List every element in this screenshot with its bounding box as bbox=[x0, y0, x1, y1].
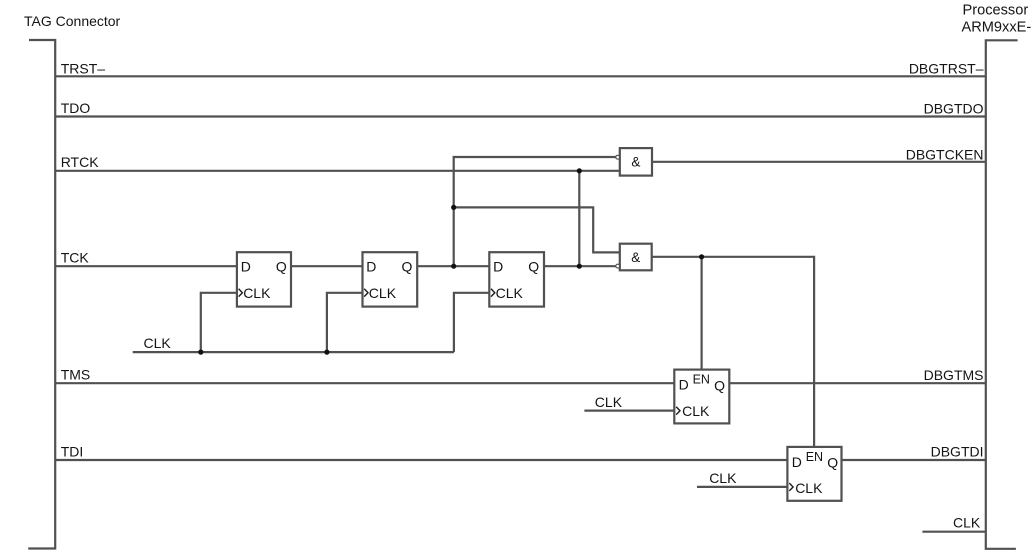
svg-text:Q: Q bbox=[714, 378, 725, 394]
svg-text:CLK: CLK bbox=[709, 470, 737, 486]
svg-text:TAG Connector: TAG Connector bbox=[24, 13, 121, 29]
wire RTCK to AND gate U4 input bbox=[55, 170, 620, 172]
wire TMS to register U6 D input bbox=[55, 382, 674, 384]
svg-text:CLK: CLK bbox=[369, 285, 397, 301]
svg-text:D: D bbox=[493, 259, 503, 275]
clock chevron U6 bbox=[676, 407, 680, 415]
svg-text:CLK: CLK bbox=[795, 480, 823, 496]
clock chevron U7 bbox=[789, 483, 793, 491]
wire CLK riser to U1 bbox=[201, 293, 237, 352]
svg-text:TDO: TDO bbox=[61, 100, 91, 116]
wire U3 Q to AND gate U5 bubble input bbox=[544, 265, 616, 267]
svg-text:CLK: CLK bbox=[243, 285, 271, 301]
AND gate U4 box bbox=[620, 148, 652, 176]
svg-text:Q: Q bbox=[402, 259, 413, 275]
wire CLK riser to U3 bbox=[454, 293, 489, 352]
flip-flop U2 box bbox=[363, 252, 418, 306]
clock chevron U2 bbox=[364, 289, 368, 297]
JTAG connector bracket bbox=[28, 40, 55, 549]
wire EN input of U6 bbox=[700, 257, 702, 370]
wire U2 Q branch up to AND gate U4 bubble input bbox=[454, 157, 616, 266]
wire CLK net bottom left bbox=[133, 351, 454, 353]
wire CLK stub to U7 bbox=[697, 486, 787, 488]
bubble on U4 input bbox=[616, 155, 620, 159]
bubble on U5 input bbox=[616, 264, 620, 268]
svg-text:TMS: TMS bbox=[61, 367, 91, 383]
wire CLK stub to U6 bbox=[584, 410, 674, 412]
svg-text:DBGTRST–: DBGTRST– bbox=[909, 60, 984, 76]
wire U7 Q to DBGTDI bbox=[842, 459, 986, 461]
svg-text:Q: Q bbox=[276, 259, 287, 275]
clock chevron U1 bbox=[239, 289, 243, 297]
wire U1 Q to U2 D bbox=[291, 265, 363, 267]
svg-text:DBGTDO: DBGTDO bbox=[924, 101, 984, 117]
wire TDI to register U7 D input bbox=[55, 459, 787, 461]
svg-text:DBGTDI: DBGTDI bbox=[931, 444, 984, 460]
node dot RTCK junction bbox=[577, 168, 582, 173]
svg-text:TCK: TCK bbox=[61, 250, 90, 266]
node dot U3Q junction bbox=[577, 264, 582, 269]
wire CLK stub bottom right bbox=[922, 531, 985, 533]
svg-text:TDI: TDI bbox=[61, 444, 84, 460]
svg-text:CLK: CLK bbox=[682, 403, 710, 419]
register U7 box (TDI enable flip-flop) bbox=[787, 447, 841, 501]
wire AND U4 output to DBGTCKEN bbox=[652, 161, 986, 163]
wire U6 Q to DBGTMS bbox=[729, 382, 986, 384]
svg-text:EN: EN bbox=[806, 450, 823, 464]
svg-text:EN: EN bbox=[693, 373, 710, 387]
node dot U2Q/U3D junction bbox=[451, 264, 456, 269]
wire node B vertical RTCK to U3 Q line bbox=[578, 171, 580, 266]
node dot branch junction bbox=[451, 205, 456, 210]
svg-text:Q: Q bbox=[827, 455, 838, 471]
wire U2 Q to U3 D bbox=[417, 265, 489, 267]
node dot U5 output junction bbox=[699, 254, 704, 259]
clock chevron U3 bbox=[491, 289, 495, 297]
AND gate U5 box bbox=[620, 244, 652, 271]
svg-text:D: D bbox=[366, 259, 376, 275]
svg-text:D: D bbox=[679, 377, 689, 393]
svg-text:DBGTMS: DBGTMS bbox=[924, 367, 984, 383]
processor bracket ARM9xxE-S bbox=[986, 40, 1018, 549]
wire AND U5 output to EN inputs bbox=[652, 257, 814, 447]
svg-text:CLK: CLK bbox=[496, 285, 524, 301]
svg-text:RTCK: RTCK bbox=[61, 154, 100, 170]
wire TCK to flip-flop U1 D input bbox=[55, 265, 237, 267]
flip-flop U1 box bbox=[237, 252, 291, 306]
svg-text:D: D bbox=[792, 454, 802, 470]
svg-text:&: & bbox=[631, 250, 640, 265]
wire CLK riser to U2 bbox=[327, 293, 363, 352]
svg-text:ARM9xxE-S: ARM9xxE-S bbox=[962, 19, 1031, 35]
svg-text:CLK: CLK bbox=[953, 515, 981, 531]
svg-text:D: D bbox=[241, 259, 251, 275]
svg-text:DBGTCKEN: DBGTCKEN bbox=[906, 147, 984, 163]
svg-text:Processor: Processor bbox=[963, 2, 1029, 18]
node dot CLK riser U1 bbox=[198, 350, 203, 355]
svg-text:Q: Q bbox=[528, 259, 539, 275]
svg-text:CLK: CLK bbox=[144, 335, 172, 351]
wire branch to AND gate U5 top input bbox=[454, 207, 620, 252]
wire TDO to DBGTDO bbox=[55, 115, 986, 117]
flip-flop U3 box bbox=[489, 252, 544, 306]
svg-text:&: & bbox=[631, 155, 640, 170]
svg-text:CLK: CLK bbox=[595, 394, 623, 410]
wire TRST- to DBGTRST- bbox=[55, 75, 986, 77]
node dot CLK riser U2 bbox=[324, 350, 329, 355]
register U6 box (TMS enable flip-flop) bbox=[674, 370, 729, 424]
svg-text:TRST–: TRST– bbox=[61, 60, 106, 76]
